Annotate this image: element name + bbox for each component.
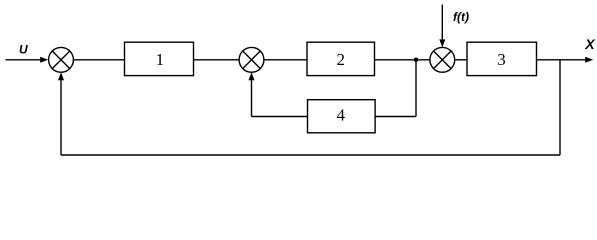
summing junction S2: [239, 47, 264, 72]
wire output arrow: [537, 57, 594, 63]
block 2: [307, 42, 375, 75]
summing junction S3: [430, 47, 455, 72]
wire S1 to block 1: [73, 59, 124, 61]
node junction dot: [414, 58, 419, 63]
svg-text:X: X: [584, 36, 596, 52]
svg-text:3: 3: [497, 50, 506, 69]
wire block 4 to S2: [249, 72, 308, 116]
svg-text:f(t): f(t): [453, 10, 469, 24]
svg-text:1: 1: [156, 50, 165, 69]
wire input arrow: [6, 57, 49, 63]
wire S2 to block 2: [264, 59, 307, 61]
block 3: [467, 42, 537, 75]
wire block 1 to S2: [194, 59, 240, 61]
wire outer feedback loop: [58, 60, 560, 155]
summing junction S1: [49, 47, 74, 72]
block 4: [308, 100, 376, 133]
wire f(t) input arrow: [439, 5, 445, 48]
block 1: [125, 42, 194, 75]
wire S3 to block 3: [455, 59, 467, 61]
svg-text:2: 2: [336, 50, 345, 69]
wire takeoff node to block 4: [375, 60, 416, 117]
svg-text:4: 4: [337, 105, 346, 124]
svg-text:U: U: [19, 43, 28, 57]
wire block 2 to S3: [375, 59, 430, 61]
